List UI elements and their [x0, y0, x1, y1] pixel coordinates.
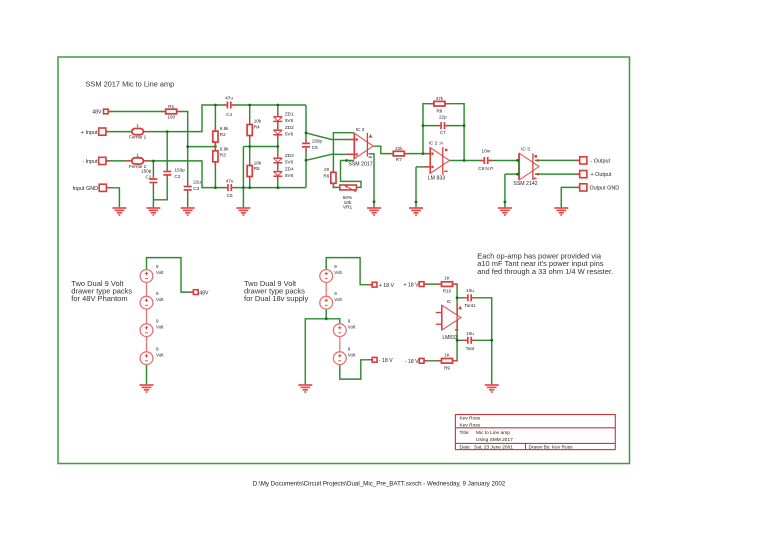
svg-text:22p: 22p — [439, 115, 447, 120]
svg-text:5V6: 5V6 — [285, 173, 294, 178]
svg-text:and fed through a 33 ohm 1/4 W: and fed through a 33 ohm 1/4 W resister. — [477, 267, 613, 276]
svg-text:SSM 2017 Mic to Line amp: SSM 2017 Mic to Line amp — [86, 80, 175, 89]
svg-text:SSM 2017: SSM 2017 — [348, 162, 372, 168]
svg-text:Drawn By: Kev Ross: Drawn By: Kev Ross — [529, 445, 574, 451]
svg-text:100: 100 — [167, 114, 175, 119]
svg-text:ZD1: ZD1 — [285, 112, 294, 117]
svg-text:Output GND: Output GND — [590, 186, 620, 192]
svg-text:Volt: Volt — [156, 352, 164, 357]
svg-text:5V6: 5V6 — [285, 118, 294, 123]
svg-text:Volt: Volt — [156, 297, 164, 302]
svg-text:47k: 47k — [436, 96, 444, 101]
svg-text:5V6: 5V6 — [285, 131, 294, 136]
svg-text:Input GND: Input GND — [73, 186, 99, 192]
svg-text:1K: 1K — [444, 353, 451, 358]
svg-text:C3: C3 — [193, 186, 199, 191]
svg-text:Volt: Volt — [348, 324, 356, 329]
svg-text:10u: 10u — [466, 331, 474, 336]
svg-text:C8 N.P.: C8 N.P. — [478, 166, 494, 171]
svg-text:22k: 22k — [395, 146, 403, 151]
svg-text:VR1: VR1 — [343, 205, 353, 211]
svg-text:Volt: Volt — [348, 352, 356, 357]
svg-text:48V: 48V — [199, 290, 209, 296]
svg-text:47u: 47u — [226, 178, 234, 183]
svg-text:for Dual 18v supply: for Dual 18v supply — [244, 294, 308, 303]
svg-text:R9: R9 — [444, 366, 450, 371]
svg-text:D:\My Documents\Circuit Projec: D:\My Documents\Circuit Projects\Dual_Mi… — [253, 481, 506, 488]
svg-text:- 18 V: - 18 V — [405, 359, 419, 365]
svg-text:- Output: - Output — [591, 159, 611, 165]
svg-text:ZD2: ZD2 — [285, 125, 294, 130]
svg-text:1K: 1K — [444, 276, 451, 281]
svg-text:IC 3: IC 3 — [521, 147, 530, 153]
svg-text:C4: C4 — [226, 112, 232, 117]
svg-text:C2: C2 — [175, 174, 181, 179]
svg-text:5V6: 5V6 — [285, 159, 294, 164]
svg-text:R7: R7 — [396, 157, 402, 162]
svg-text:Tant: Tant — [466, 346, 475, 351]
svg-text:- Input: - Input — [82, 159, 98, 165]
svg-text:150p: 150p — [312, 139, 323, 144]
svg-text:C1: C1 — [145, 175, 151, 180]
svg-text:+ Output: + Output — [591, 172, 612, 178]
svg-text:IC 2: IC 2 — [356, 127, 365, 133]
svg-text:150p: 150p — [141, 168, 152, 173]
svg-text:Volt: Volt — [334, 270, 342, 275]
svg-text:22u: 22u — [193, 180, 201, 185]
svg-text:+ Input: + Input — [81, 130, 98, 136]
svg-text:Mic to Line amp: Mic to Line amp — [476, 430, 510, 436]
svg-text:1: 1 — [136, 152, 139, 157]
svg-text:Kev Ross: Kev Ross — [460, 422, 481, 428]
svg-text:+ 18 V: + 18 V — [403, 282, 419, 288]
svg-text:R5: R5 — [254, 166, 260, 171]
svg-text:R6: R6 — [323, 174, 329, 179]
svg-text:150p: 150p — [175, 168, 186, 173]
svg-text:Volt: Volt — [334, 297, 342, 302]
svg-text:C5: C5 — [227, 193, 233, 198]
svg-text:- 18 V: - 18 V — [379, 358, 393, 364]
svg-text:Title:: Title: — [460, 430, 470, 436]
svg-text:ZD3: ZD3 — [285, 153, 294, 158]
svg-text:R8: R8 — [436, 109, 442, 114]
svg-text:R2: R2 — [220, 132, 226, 137]
svg-text:47u: 47u — [225, 96, 233, 101]
svg-text:10k: 10k — [254, 119, 262, 124]
svg-text:LM833: LM833 — [442, 335, 458, 341]
svg-text:10k: 10k — [254, 160, 262, 165]
svg-text:1: 1 — [136, 123, 139, 128]
svg-text:Sat, 23 June 2001: Sat, 23 June 2001 — [474, 445, 513, 451]
svg-text:20: 20 — [324, 167, 330, 172]
svg-text:48V: 48V — [92, 110, 102, 116]
svg-text:ZD4: ZD4 — [285, 166, 294, 171]
svg-text:Volt: Volt — [156, 270, 164, 275]
svg-text:IC: IC — [447, 299, 452, 304]
svg-text:Volt: Volt — [156, 324, 164, 329]
svg-text:Date:: Date: — [460, 445, 471, 451]
svg-text:Ferrite 1: Ferrite 1 — [129, 135, 147, 140]
svg-text:+ 18 V: + 18 V — [379, 283, 395, 289]
svg-text:SSM 2142: SSM 2142 — [513, 181, 537, 187]
svg-text:LM 833: LM 833 — [428, 176, 445, 182]
svg-text:R4: R4 — [254, 124, 260, 129]
svg-text:R1: R1 — [168, 104, 174, 109]
svg-text:R3: R3 — [220, 152, 226, 157]
svg-text:C6: C6 — [312, 145, 318, 150]
svg-text:C7: C7 — [440, 130, 446, 135]
svg-text:6.8k: 6.8k — [220, 126, 229, 131]
svg-text:Kev Ross: Kev Ross — [460, 416, 481, 422]
svg-text:Tant1: Tant1 — [464, 303, 476, 308]
svg-text:IC 2 :A: IC 2 :A — [429, 141, 444, 147]
svg-text:R10: R10 — [443, 289, 452, 294]
svg-text:for 48V Phantom: for 48V Phantom — [71, 294, 127, 303]
svg-text:10u: 10u — [466, 288, 474, 293]
svg-text:10m: 10m — [482, 149, 491, 154]
svg-text:Using SMM 2017: Using SMM 2017 — [476, 437, 513, 443]
svg-text:6.8k: 6.8k — [220, 146, 229, 151]
